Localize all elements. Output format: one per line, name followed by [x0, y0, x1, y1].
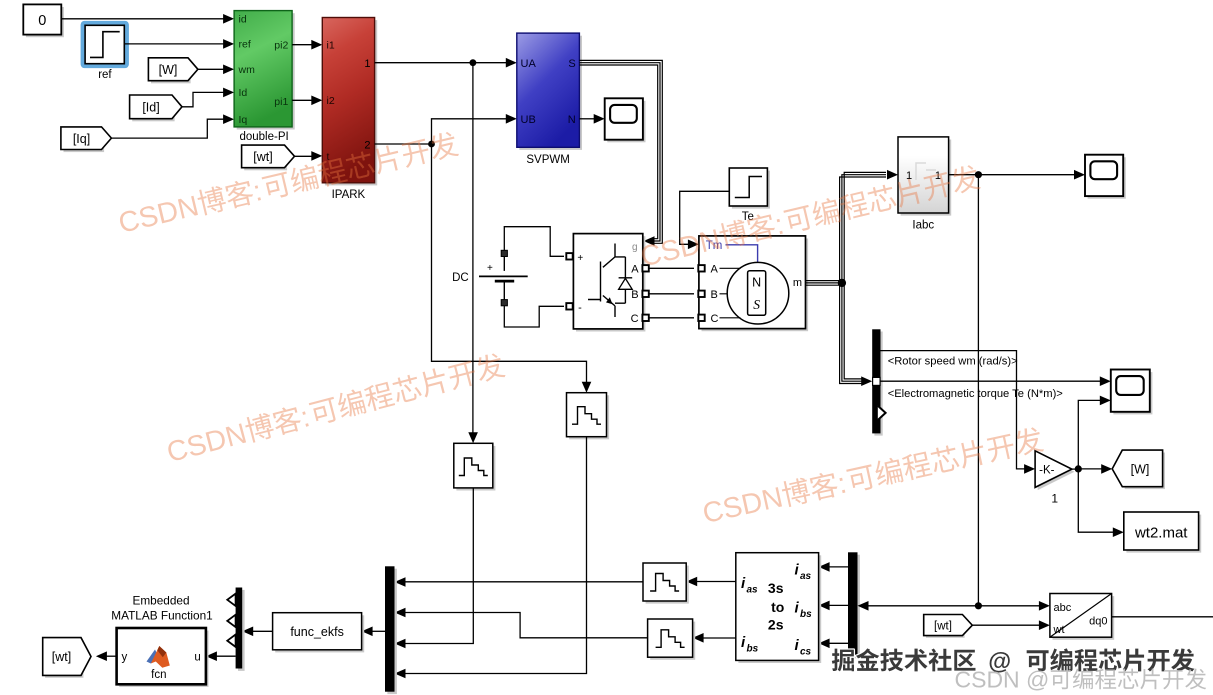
svg-text:UA: UA: [521, 58, 537, 70]
wire: D2 out a to 3s2s i_as: [828, 566, 848, 568]
wire: D2 out b to 3s2s i_bs: [828, 604, 848, 606]
svg-text:S: S: [753, 297, 760, 312]
svg-text:m: m: [793, 277, 802, 289]
svg-text:wt2.mat: wt2.mat: [1134, 524, 1188, 541]
svg-text:Iq: Iq: [239, 114, 248, 126]
svg-text:i2: i2: [327, 95, 335, 107]
wire: J5 to demux D2: [867, 605, 978, 607]
svg-text:wm: wm: [238, 64, 256, 76]
junction J2 on UB wire: [428, 141, 435, 148]
svg-text:ref: ref: [239, 39, 251, 51]
watermark W1 CSDN blog: [116, 129, 461, 240]
svg-text:+: +: [487, 263, 493, 274]
wire: J6 up to scope SC3 second input: [1078, 400, 1100, 469]
junction J6 (gain output): [1072, 468, 1078, 470]
function block func_ekfs: [275, 615, 364, 652]
svg-text:<Electromagnetic torque Te (N*: <Electromagnetic torque Te (N*m)>: [888, 388, 1063, 400]
svg-text:ref: ref: [98, 69, 112, 81]
svg-text:UB: UB: [521, 114, 536, 126]
svg-text:CSDN @: CSDN @: [955, 667, 1050, 693]
wire: D2 out c to 3s2s i_cs: [828, 642, 848, 644]
wire: [W] to double-PI wm: [198, 68, 224, 70]
pulse block P4: [650, 622, 695, 660]
wire: SVPWM S triple bus to inverter gate g: [579, 60, 662, 243]
svg-text:bs: bs: [747, 643, 759, 654]
wire: BS1 torque out to scope SC3: [881, 380, 1101, 382]
svg-text:C: C: [711, 313, 719, 325]
wire: P4 out to mux M1 in2: [405, 613, 648, 638]
svg-text:2: 2: [364, 139, 370, 151]
wire: D1 out4 to fcn u: [216, 655, 236, 657]
svg-text:Id: Id: [239, 87, 248, 99]
demux D2 (black bar right of 3s2s): [850, 555, 860, 659]
Embedded MATLAB fcn block: [119, 631, 208, 687]
svg-text:MATLAB Function1: MATLAB Function1: [111, 609, 212, 623]
svg-text:0: 0: [38, 13, 46, 29]
wire: J6 to Goto [W]: [1078, 468, 1102, 470]
svg-text:as: as: [747, 584, 759, 595]
wire: mux M1 to func_ekfs: [372, 630, 386, 632]
watermark W3 CSDN blog: [164, 350, 508, 469]
From tag [W]: [151, 60, 191, 83]
pulse block P1: [456, 446, 495, 491]
wire: J4 down to J5 (abc distribution): [977, 175, 979, 606]
watermark: juejin community dark text: [832, 648, 976, 671]
wire: IPARK out2 to SVPWM UB (via junction J2): [375, 119, 507, 144]
wire: [Id] to double-PI Id: [182, 92, 224, 106]
motor port squares and stubs: [698, 265, 704, 271]
gain K1 (-K-): [1038, 453, 1075, 490]
wire: P3 out to mux M1 in1: [405, 581, 644, 583]
scope SC2 (Iabc): [1088, 157, 1126, 198]
wire: double-PI pi2 to IPARK i1: [292, 44, 312, 46]
svg-text:2s: 2s: [768, 617, 784, 633]
svg-text:pi1: pi1: [274, 96, 288, 108]
svg-text:A: A: [631, 264, 639, 276]
Goto tag [W]: [1125, 453, 1165, 490]
svg-text:3s: 3s: [768, 580, 784, 596]
svg-text:y: y: [122, 652, 128, 664]
svg-text:wt: wt: [1053, 624, 1065, 636]
wire: abc/dq0 output to canvas edge: [1112, 616, 1213, 618]
bus selector BS1 (black bar): [874, 332, 882, 436]
wire: BS1 rotor speed out to gain K1: [881, 351, 1025, 469]
wire: P1 out down to mux M1 in3: [405, 488, 474, 644]
mux M1 (black bar): [387, 569, 397, 694]
svg-text:[wt]: [wt]: [52, 650, 71, 664]
wire: [wt] to IPARK wt: [295, 155, 313, 157]
svg-text:dq0: dq0: [1089, 615, 1107, 627]
wire: Te to motor Tm: [680, 191, 730, 244]
svg-text:func_ekfs: func_ekfs: [290, 625, 344, 639]
svg-text:S: S: [568, 58, 575, 70]
svg-text:[Iq]: [Iq]: [73, 132, 90, 146]
svg-text:[wt]: [wt]: [253, 150, 272, 164]
motor Tm wire (blue): [726, 245, 758, 262]
junction J3 (m signal): [838, 279, 846, 287]
wire: J3 down to bus selector (triple): [840, 283, 863, 384]
svg-text:1: 1: [364, 58, 370, 70]
svg-text:<Rotor speed wm (rad/s)>: <Rotor speed wm (rad/s)>: [888, 355, 1018, 367]
svg-text:SVPWM: SVPWM: [526, 154, 569, 166]
watermark W4 CSDN blog: [700, 425, 1046, 531]
wire: DC + to inverter +: [504, 227, 564, 257]
svg-text:N: N: [568, 114, 576, 126]
wire: DC - to inverter -: [504, 306, 564, 327]
demux D1 (black bar, 3 unconnected outputs): [238, 590, 245, 671]
MATLAB membrane logo: [147, 650, 159, 664]
svg-text:[wt]: [wt]: [934, 621, 952, 633]
pulse block P3: [646, 566, 689, 604]
wire: step ref to double-PI ref: [124, 43, 224, 45]
wire: SVPWM N to scope SC1: [579, 118, 594, 120]
svg-text:A: A: [711, 264, 719, 276]
inverter IGBT + diode icon: [588, 244, 632, 318]
From tag [wt] (to IPARK): [244, 148, 287, 171]
constant block C0 value 0: [26, 7, 64, 37]
svg-text:pi2: pi2: [274, 40, 288, 52]
watermark: CSDN light gray text: [955, 667, 1207, 693]
svg-text:[W]: [W]: [159, 63, 178, 77]
svg-text:fcn: fcn: [151, 669, 166, 681]
svg-text:-: -: [578, 302, 582, 314]
inverter bridge block U1: [576, 236, 645, 331]
junction J5: [975, 602, 982, 609]
From tag [Id]: [132, 98, 174, 122]
wire: J3 up to Iabc input (triple): [840, 172, 886, 283]
junction J1 on UA wire: [470, 59, 477, 66]
bus selector unconnected output chevron: [878, 406, 886, 420]
svg-text:abc: abc: [1054, 602, 1072, 614]
unconnected demux chevrons: [227, 594, 235, 606]
magnet N-S box: [748, 271, 766, 316]
wire: IPARK out1 to SVPWM UA (with branch junction): [375, 62, 507, 64]
svg-text:B: B: [711, 289, 718, 301]
From tag [wt] (bottom right): [926, 617, 965, 638]
wire: Iabc out to scope SC2 via junction J4: [949, 174, 1075, 176]
svg-text:u: u: [194, 652, 200, 664]
svg-text:to: to: [771, 599, 784, 615]
scope SC1 (after SVPWM N): [607, 101, 645, 142]
wire: 3s2s i_bs out to pulse P4: [702, 637, 736, 639]
wire: P2 out down to mux M1 in4: [405, 437, 587, 674]
From tag [Iq]: [64, 130, 105, 153]
svg-text:-K-: -K-: [1039, 465, 1055, 477]
watermark W2 CSDN blog: [637, 162, 982, 273]
svg-text:B: B: [631, 289, 638, 301]
wire: J5 to abc/dq0 abc input: [978, 605, 1039, 607]
junction J4: [975, 171, 982, 178]
scope SC3 (2 inputs): [1113, 372, 1152, 414]
svg-text:IPARK: IPARK: [332, 189, 366, 201]
wire: J6 down to wt2.mat: [1078, 469, 1113, 532]
wire: J2 down and over to pulse block P2: [432, 144, 587, 382]
svg-text:Embedded: Embedded: [132, 594, 189, 608]
wire: [wt] to abc/dq0 wt input: [972, 624, 1039, 626]
wire: double-PI pi1 to IPARK i2: [292, 99, 312, 101]
svg-text:+: +: [577, 253, 583, 264]
svg-text:[W]: [W]: [1131, 462, 1150, 476]
wire: fcn y to Goto [wt]: [106, 655, 117, 657]
wire: inverter A to motor A: [649, 267, 694, 269]
svg-text:bs: bs: [800, 609, 812, 620]
wire: [Iq] to double-PI Iq: [111, 119, 224, 138]
svg-text:C: C: [631, 313, 639, 325]
To File block wt2.mat: [1126, 515, 1201, 553]
svg-text:as: as: [800, 571, 812, 582]
svg-text:id: id: [239, 14, 247, 26]
svg-text:i1: i1: [327, 40, 335, 52]
svg-text:Iabc: Iabc: [912, 219, 934, 231]
wire: J1 down to pulse block P1: [472, 63, 474, 433]
svg-text:DC: DC: [452, 272, 469, 284]
abc to dq0 transform block: [1053, 596, 1115, 640]
svg-text:N: N: [752, 275, 761, 289]
inverter port squares: [566, 253, 572, 259]
svg-text:[Id]: [Id]: [142, 101, 159, 115]
pulse block P2: [569, 395, 609, 439]
subsystem 3s-to-2s transform: [738, 555, 821, 663]
wire: 3s2s i_as out to pulse P3: [696, 581, 736, 583]
wire: inverter B to motor B: [649, 293, 694, 295]
wire: motor m output triple bus to junction J3: [806, 281, 844, 286]
PMSM motor block M1: [702, 239, 809, 332]
motor rotor circle: [727, 262, 789, 324]
DC source port squares: [501, 250, 507, 256]
step source ref (selected, blue highlight): [83, 23, 127, 66]
Goto tag [wt] (bottom left): [45, 640, 83, 678]
DC battery symbol: [503, 250, 505, 271]
wire: inverter C to motor C: [649, 317, 694, 319]
svg-text:1: 1: [1051, 492, 1058, 506]
svg-text:double-PI: double-PI: [239, 131, 288, 143]
wire: func_ekfs out to demux D1: [252, 630, 273, 632]
wire: constant 0 to double-PI id: [61, 18, 224, 20]
svg-text:cs: cs: [800, 647, 812, 658]
step source Te: [732, 171, 770, 209]
